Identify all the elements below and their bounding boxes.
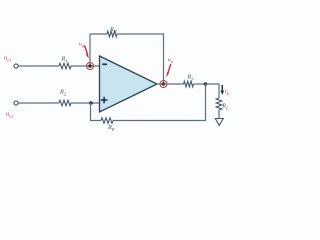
wire: R3 to right junction	[194, 83, 206, 85]
node: inverting input junction	[88, 64, 92, 68]
wire: R2 to op-amp non-inverting input	[71, 102, 100, 104]
wire: output node to R3	[164, 83, 184, 85]
op-amp plus sign	[101, 99, 108, 101]
probe arrow u_a	[168, 64, 171, 73]
wire: RL to ground	[218, 110, 220, 119]
terminal input 1	[14, 64, 18, 68]
wire: input 2 from terminal to non-inverting node	[18, 102, 59, 104]
current arrow i_L	[221, 85, 223, 92]
resistor R3	[184, 81, 194, 87]
probe circle at output node	[160, 81, 167, 88]
wire: right junction to load branch	[206, 84, 220, 98]
node: non-inverting input junction	[89, 101, 93, 105]
resistor RN	[107, 31, 117, 37]
probe circle at inverting node	[87, 63, 94, 70]
node: right junction	[204, 82, 208, 86]
resistor RP	[101, 118, 113, 124]
wire: top rail right segment down to output node	[117, 34, 164, 84]
wire: bottom rail to non-inverting node riser	[91, 103, 102, 121]
node: output junction	[162, 82, 166, 86]
wire: op-amp output to output node	[157, 83, 164, 85]
ground	[215, 119, 223, 126]
wire: input 1 from terminal to inverting node	[18, 65, 59, 67]
op-amp U1	[100, 56, 158, 112]
wire: right junction down to bottom rail	[113, 84, 206, 121]
resistor R2	[59, 100, 71, 106]
op-amp minus sign	[102, 63, 107, 65]
wire: feedback riser from inverting node up	[89, 34, 91, 66]
svg-text:iL: iL	[225, 89, 230, 96]
resistor R1	[59, 63, 71, 69]
terminal input 2	[14, 101, 18, 105]
probe arrow u_d	[85, 46, 88, 55]
svg-text:ua: ua	[168, 57, 174, 64]
wire: R1 to op-amp inverting input	[71, 65, 100, 67]
svg-text:ud: ud	[79, 42, 85, 49]
resistor RL	[216, 98, 222, 110]
wire: top rail left segment	[90, 33, 107, 35]
